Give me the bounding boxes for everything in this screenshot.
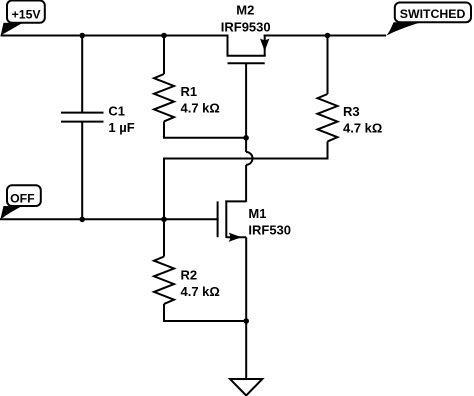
svg-text:IRF9530: IRF9530: [221, 20, 271, 35]
node dot: M1 source / R2 bottom / ground: [243, 318, 249, 324]
node dot: OFF rail / R2 top: [161, 217, 167, 223]
wire M1 drain lead: [245, 200, 247, 203]
resistor R2: [154, 219, 220, 321]
capacitor C1: [61, 36, 135, 220]
svg-text:M1: M1: [248, 206, 266, 221]
node dot: SWITCHED / R3: [325, 33, 331, 39]
svg-text:4.7 kΩ: 4.7 kΩ: [343, 121, 382, 136]
node dot: OFF rail / C1 bottom: [79, 217, 85, 223]
wire +15V rail (top left segment): [2, 35, 228, 37]
resistor R1: [154, 36, 220, 138]
svg-text:C1: C1: [108, 104, 125, 119]
svg-text:M2: M2: [236, 3, 254, 18]
svg-text:IRF530: IRF530: [248, 223, 291, 238]
node dot: R1 bottom / M2 gate: [243, 135, 249, 141]
svg-text:1 µF: 1 µF: [108, 120, 134, 135]
ground: [230, 379, 262, 396]
wire M2 drain to SWITCHED (top right segment): [265, 35, 385, 37]
svg-text:+15V: +15V: [12, 7, 42, 21]
svg-text:R2: R2: [181, 267, 198, 282]
svg-text:OFF: OFF: [10, 192, 35, 206]
svg-text:R3: R3: [343, 104, 360, 119]
svg-text:4.7 kΩ: 4.7 kΩ: [181, 284, 220, 299]
node dot: +15V / R1: [161, 33, 167, 39]
node dot: +15V / C1: [79, 33, 85, 39]
wire M2 gate to M1 drain (with hop over gate-net wire): [246, 138, 252, 202]
resistor R3: [318, 36, 383, 159]
wire R2 bottom to ground node: [164, 320, 246, 322]
wire M1 gate net (OFF/R2/R3 junction wire): [164, 159, 328, 220]
svg-text:4.7 kΩ: 4.7 kΩ: [181, 101, 220, 116]
wire OFF rail to M1 gate: [1, 218, 218, 220]
svg-text:R1: R1: [181, 84, 198, 99]
flag OFF: [0, 185, 41, 219]
wire M1 source to ground: [245, 237, 247, 379]
transistor M2 (PMOS IRF9530): [221, 3, 271, 138]
flag SWITCHED: [386, 2, 471, 35]
flag +15V: [1, 1, 45, 36]
wire R1 bottom to M2 gate node: [164, 137, 246, 139]
svg-text:SWITCHED: SWITCHED: [400, 7, 466, 21]
transistor M1 (NMOS IRF530): [218, 200, 291, 241]
